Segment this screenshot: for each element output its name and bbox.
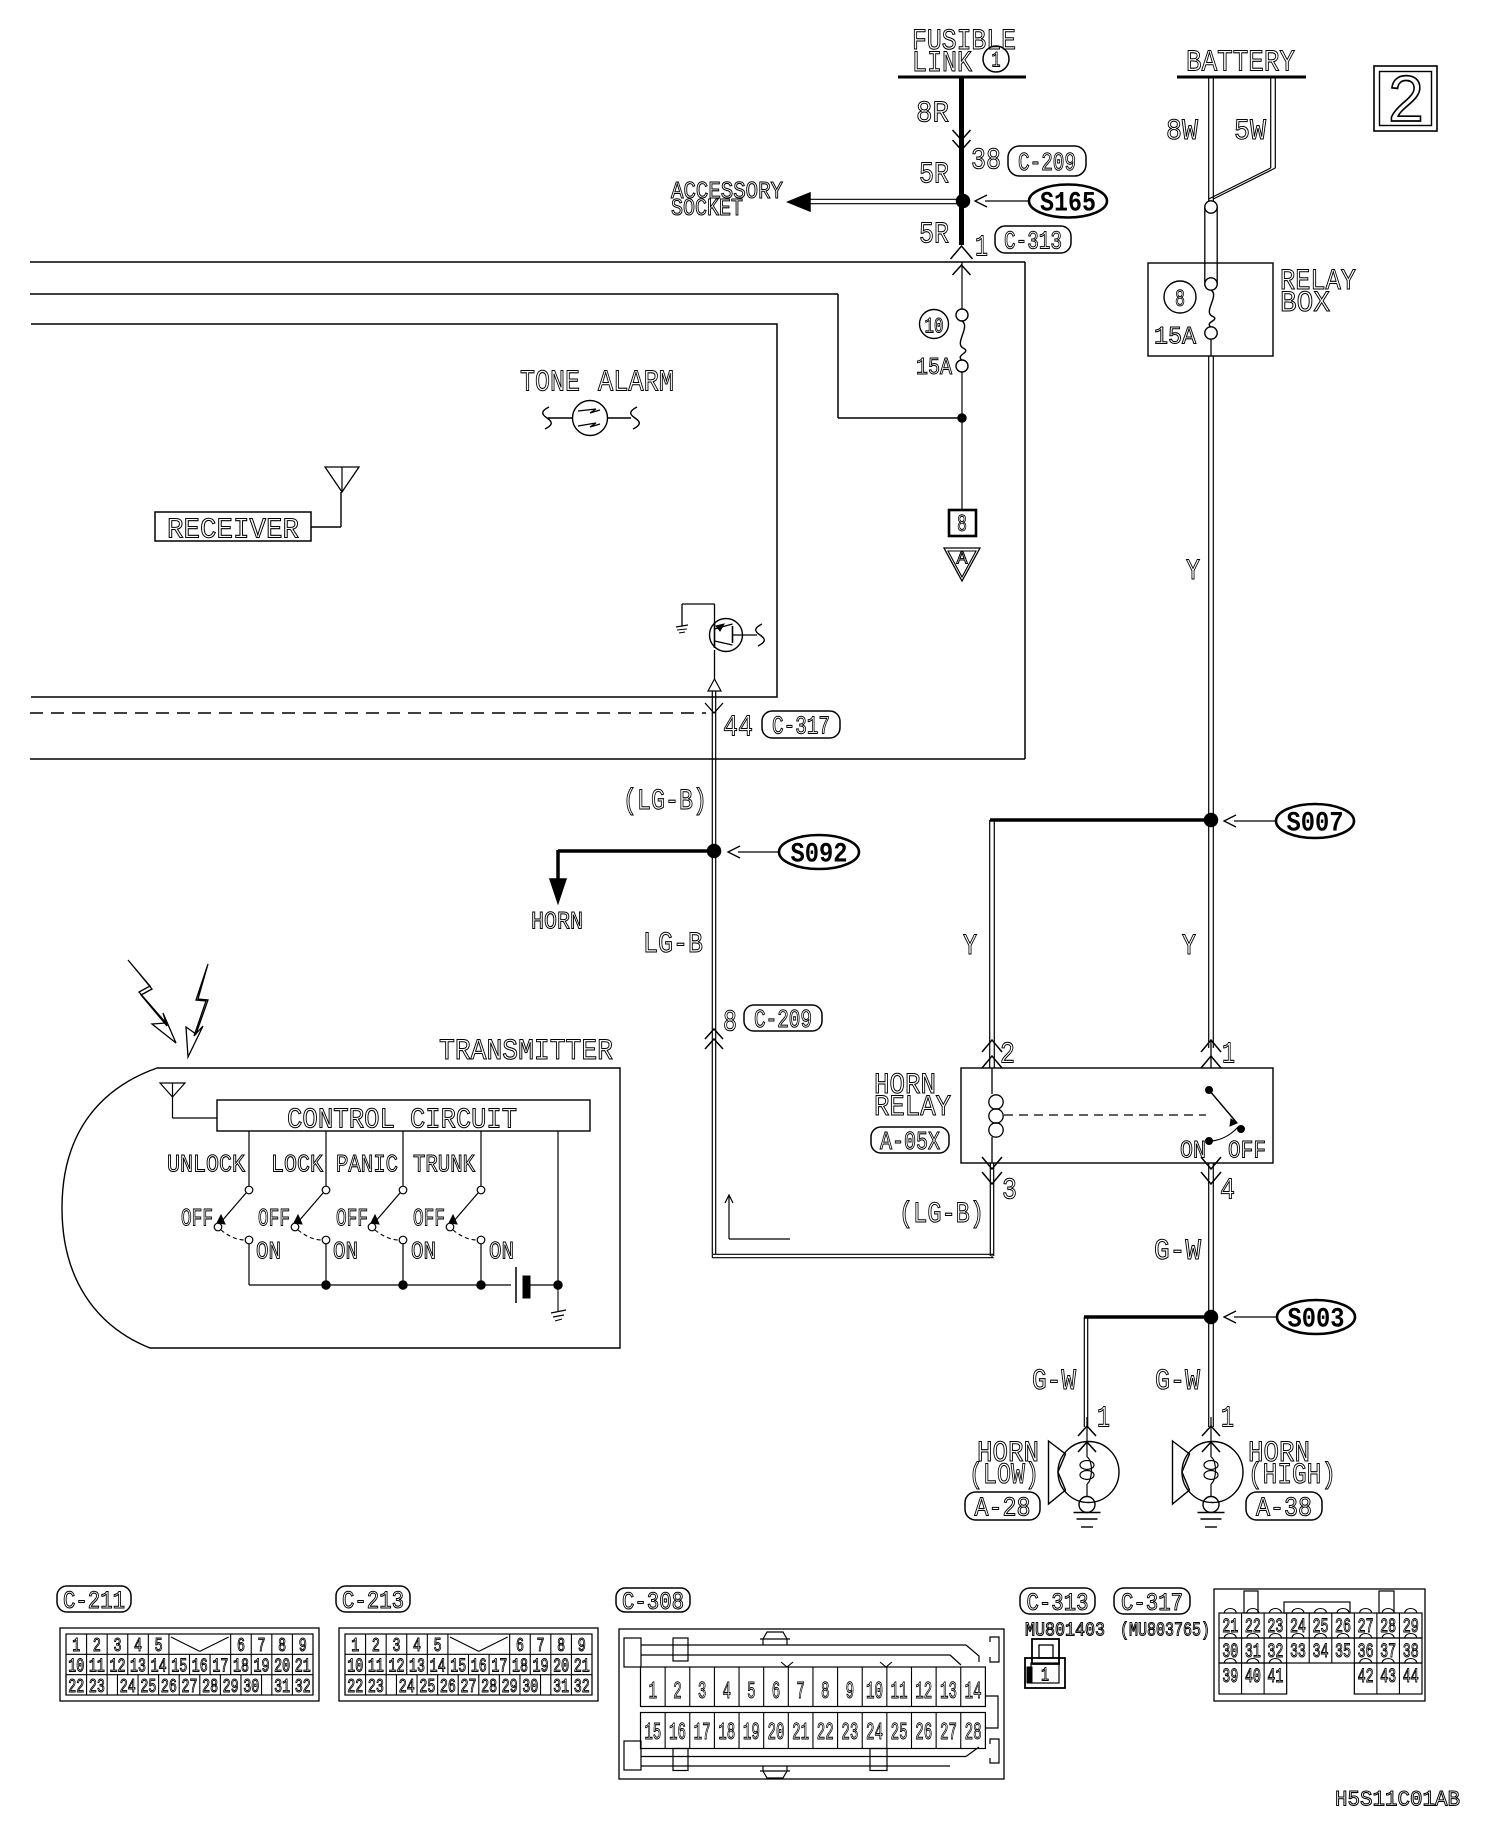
svg-text:3: 3	[392, 1635, 400, 1657]
splice label S003	[1277, 1300, 1355, 1334]
svg-text:11: 11	[368, 1655, 384, 1677]
svg-text:PANIC: PANIC	[336, 1151, 398, 1180]
transmitter antenna	[160, 1083, 185, 1097]
wire into relay pin 2	[989, 1048, 991, 1068]
svg-text:TONE: TONE	[520, 366, 580, 401]
svg-text:42: 42	[1358, 1666, 1374, 1689]
internal wire from ECU top to fuse 10	[30, 293, 838, 295]
svg-text:H5S11C01AB: H5S11C01AB	[1335, 1787, 1460, 1812]
arrow from S007 to junction	[1234, 820, 1276, 822]
arrowhead to HORN	[550, 879, 566, 903]
svg-text:31: 31	[274, 1676, 290, 1698]
svg-text:23: 23	[368, 1676, 384, 1698]
svg-text:MU801403: MU801403	[1025, 1619, 1105, 1641]
pass-through arrows on LG-B wire	[705, 1029, 723, 1039]
CONTROL CIRCUIT box	[217, 1100, 590, 1131]
svg-text:ALARM: ALARM	[598, 366, 674, 401]
svg-text:8: 8	[557, 1635, 565, 1657]
transmitter ground	[557, 1285, 559, 1311]
svg-text:20: 20	[553, 1655, 569, 1677]
svg-text:4: 4	[413, 1635, 421, 1657]
branch wire to horn low (thick)	[1084, 1315, 1209, 1319]
pin 3 exit arrows	[982, 1172, 1002, 1184]
svg-text:2: 2	[673, 1679, 682, 1706]
svg-text:15: 15	[644, 1720, 661, 1747]
arrow from S092 to junction	[738, 851, 779, 853]
connector label C-209	[1008, 146, 1086, 176]
svg-text:8: 8	[1175, 287, 1185, 314]
svg-text:ON: ON	[1180, 1137, 1206, 1166]
svg-text:9: 9	[299, 1635, 307, 1657]
svg-text:33: 33	[1290, 1641, 1306, 1664]
svg-text:2: 2	[372, 1635, 380, 1657]
svg-text:(HIGH): (HIGH)	[1248, 1459, 1336, 1493]
junction dot below fuse 10	[958, 414, 966, 422]
connector label A-38	[1246, 1492, 1322, 1520]
svg-text:17: 17	[491, 1655, 507, 1677]
wire from C-313 pin to fuse 10	[961, 262, 963, 309]
junction dots on bus	[322, 1281, 330, 1289]
junction S003 dot	[1205, 1311, 1218, 1324]
svg-text:19: 19	[254, 1655, 270, 1677]
svg-text:7: 7	[796, 1679, 805, 1706]
fusible link bus bar	[898, 76, 1026, 79]
svg-text:22: 22	[68, 1676, 84, 1698]
svg-text:15A: 15A	[916, 355, 952, 382]
svg-text:8: 8	[957, 512, 967, 539]
switch common bus	[249, 1284, 511, 1286]
svg-text:18: 18	[512, 1655, 528, 1677]
ground symbol at transistor	[681, 604, 683, 626]
svg-text:13: 13	[130, 1655, 146, 1677]
svg-text:40: 40	[1245, 1666, 1261, 1689]
triangle connector A	[944, 548, 980, 581]
svg-text:26: 26	[440, 1676, 456, 1698]
connector C-308 housing	[619, 1629, 1004, 1779]
svg-text:(LG-B): (LG-B)	[623, 785, 707, 819]
svg-text:CONTROL: CONTROL	[287, 1103, 395, 1136]
svg-text:10: 10	[68, 1655, 84, 1677]
svg-text:10: 10	[866, 1679, 883, 1706]
svg-text:24: 24	[866, 1720, 883, 1747]
inner receiver unit box	[31, 324, 777, 697]
svg-text:43: 43	[1380, 1666, 1396, 1689]
svg-text:12: 12	[388, 1655, 404, 1677]
svg-text:11: 11	[891, 1679, 908, 1706]
svg-text:1: 1	[1221, 1402, 1234, 1437]
svg-text:28: 28	[481, 1676, 497, 1698]
svg-text:18: 18	[718, 1720, 735, 1747]
svg-text:1: 1	[975, 231, 988, 266]
direction arrow near bottom run	[728, 1196, 730, 1239]
svg-text:5R: 5R	[919, 158, 949, 193]
svg-text:28: 28	[965, 1720, 982, 1747]
C-308 bottom right bracket	[990, 1739, 999, 1763]
C-308 rail notches	[781, 1662, 793, 1667]
svg-text:4: 4	[134, 1635, 142, 1657]
svg-text:1: 1	[1097, 1402, 1110, 1437]
svg-text:13: 13	[409, 1655, 425, 1677]
ECU box right edge	[1024, 262, 1026, 759]
svg-text:Y: Y	[963, 930, 977, 964]
svg-text:A-28: A-28	[975, 1494, 1031, 1524]
svg-text:3: 3	[113, 1635, 121, 1657]
connector label C-308	[616, 1588, 690, 1612]
svg-text:12: 12	[109, 1655, 125, 1677]
svg-text:30: 30	[243, 1676, 259, 1698]
svg-text:25: 25	[891, 1720, 908, 1747]
C-308 right latch	[985, 1696, 998, 1728]
svg-text:1: 1	[1041, 1664, 1049, 1686]
relay internal dashed link	[1004, 1114, 1206, 1116]
svg-text:UNLOCK: UNLOCK	[167, 1151, 245, 1180]
ECU box top line	[30, 261, 1025, 263]
svg-text:C-317: C-317	[772, 712, 830, 742]
wire 8R from fusible link (thick)	[959, 77, 964, 245]
C-308 top rails	[641, 1644, 966, 1646]
svg-text:S003: S003	[1288, 1305, 1345, 1336]
svg-text:OFF: OFF	[258, 1205, 290, 1234]
receiver antenna symbol	[311, 526, 341, 528]
page number box 2	[1374, 66, 1437, 131]
C-317 top tabs	[1244, 1591, 1258, 1613]
svg-text:6: 6	[772, 1679, 781, 1706]
svg-text:5: 5	[155, 1635, 163, 1657]
pin 1 entry arrows	[1201, 1040, 1221, 1052]
svg-text:A-05X: A-05X	[880, 1127, 940, 1157]
svg-text:A: A	[957, 550, 968, 570]
svg-text:C-209: C-209	[1018, 148, 1076, 178]
pin 4 exit arrows	[1201, 1172, 1221, 1184]
horn (high) symbol	[1182, 1442, 1243, 1503]
arrowhead to accessory socket	[788, 193, 810, 211]
circled 10 (fuse number)	[920, 310, 949, 339]
svg-text:1: 1	[649, 1679, 658, 1706]
svg-text:41: 41	[1267, 1666, 1283, 1689]
svg-text:30: 30	[522, 1676, 538, 1698]
page-connection arrowhead at pin 44	[705, 703, 723, 713]
switch at x=481	[480, 1131, 482, 1186]
relay box outline	[1148, 263, 1273, 356]
svg-text:25: 25	[140, 1676, 156, 1698]
svg-text:8: 8	[278, 1635, 286, 1657]
svg-text:23: 23	[841, 1720, 858, 1747]
ECU box bottom line	[30, 758, 1025, 760]
fuse 10 (15A) symbol	[956, 309, 968, 321]
svg-text:39: 39	[1222, 1666, 1238, 1689]
svg-text:27: 27	[182, 1676, 198, 1698]
radio waves (lightning arrows)	[128, 960, 176, 1043]
junction S092 dot	[708, 845, 721, 858]
svg-text:38: 38	[971, 144, 1001, 179]
svg-text:8: 8	[723, 1006, 737, 1041]
wire from pin 3 down (double line)	[989, 1163, 991, 1256]
dashed expansion line of ECU	[30, 712, 706, 714]
circled 8 (fuse number)	[1164, 281, 1196, 313]
svg-text:17: 17	[212, 1655, 228, 1677]
svg-text:BOX: BOX	[1280, 287, 1330, 321]
junction S165 dot	[957, 195, 970, 208]
svg-text:5: 5	[434, 1635, 442, 1657]
svg-text:S165: S165	[1040, 189, 1096, 220]
svg-text:C-313: C-313	[1027, 1589, 1089, 1618]
svg-text:23: 23	[89, 1676, 105, 1698]
svg-text:4: 4	[1220, 1174, 1235, 1209]
svg-text:7: 7	[258, 1635, 266, 1657]
svg-text:29: 29	[223, 1676, 239, 1698]
svg-text:31: 31	[553, 1676, 569, 1698]
svg-text:3: 3	[698, 1679, 707, 1706]
svg-text:19: 19	[533, 1655, 549, 1677]
svg-text:17: 17	[694, 1720, 711, 1747]
switch at x=403	[402, 1131, 404, 1186]
arrow from S165 to junction	[985, 200, 1029, 202]
connector label A-28	[965, 1492, 1040, 1520]
svg-text:26: 26	[161, 1676, 177, 1698]
svg-text:Y: Y	[1182, 930, 1196, 964]
svg-text:35: 35	[1335, 1641, 1351, 1664]
svg-text:27: 27	[461, 1676, 477, 1698]
svg-text:24: 24	[120, 1676, 136, 1698]
relay coil	[991, 1068, 993, 1094]
fusible link element (pill) in battery feed	[1205, 201, 1217, 213]
C-308 pin grid	[641, 1667, 986, 1707]
svg-text:G-W: G-W	[1154, 1235, 1201, 1269]
transistor Q1 in receiver	[710, 619, 743, 652]
svg-text:5: 5	[747, 1679, 756, 1706]
svg-text:8W: 8W	[1166, 115, 1198, 149]
svg-text:1: 1	[351, 1635, 359, 1657]
svg-text:16: 16	[192, 1655, 208, 1677]
svg-text:15A: 15A	[1154, 323, 1196, 352]
svg-text:12: 12	[915, 1679, 932, 1706]
svg-text:C-317: C-317	[1121, 1589, 1183, 1618]
connector label C-213	[336, 1586, 410, 1612]
wire Y from S007 to relay pin 1 (double line)	[1208, 824, 1210, 1048]
svg-text:28: 28	[202, 1676, 218, 1698]
svg-text:14: 14	[430, 1655, 446, 1677]
splice label S092	[779, 835, 859, 869]
svg-text:22: 22	[347, 1676, 363, 1698]
svg-text:25: 25	[419, 1676, 435, 1698]
svg-text:9: 9	[578, 1635, 586, 1657]
svg-text:BATTERY: BATTERY	[1186, 46, 1295, 81]
wire from transistor to pin 44	[714, 650, 716, 679]
svg-text:C-211: C-211	[63, 1587, 125, 1616]
svg-text:G-W: G-W	[1032, 1365, 1076, 1399]
tone alarm speaker symbol	[573, 401, 608, 436]
svg-text:(LOW): (LOW)	[969, 1459, 1039, 1493]
pass-through arrow at ECU boundary	[951, 246, 973, 259]
connector label C-313	[995, 226, 1071, 253]
svg-text:CIRCUIT: CIRCUIT	[410, 1103, 517, 1136]
svg-text:13: 13	[940, 1679, 957, 1706]
arrow from S003 to junction	[1234, 1316, 1277, 1318]
svg-text:3: 3	[1002, 1174, 1017, 1209]
connector label C-209 (lower)	[744, 1005, 822, 1031]
svg-text:34: 34	[1313, 1641, 1329, 1664]
svg-text:Y: Y	[1186, 555, 1200, 589]
svg-text:11: 11	[89, 1655, 105, 1677]
wire 8W (double line)	[1208, 77, 1210, 201]
C-308 bottom ears and clip	[624, 1741, 641, 1770]
svg-text:RECEIVER: RECEIVER	[167, 513, 299, 546]
connector C-213 pinout table	[339, 1628, 598, 1701]
svg-text:ON: ON	[489, 1238, 514, 1267]
svg-text:24: 24	[399, 1676, 415, 1698]
svg-text:TRANSMITTER: TRANSMITTER	[439, 1035, 613, 1069]
svg-text:32: 32	[295, 1676, 311, 1698]
svg-text:6: 6	[237, 1635, 245, 1657]
svg-text:S007: S007	[1287, 809, 1344, 840]
switch at x=326	[325, 1131, 327, 1186]
C-308 top right bracket	[990, 1637, 999, 1662]
connector pass-through arrows on wire	[953, 130, 971, 140]
C-317 pin grid	[1219, 1613, 1422, 1638]
svg-text:20: 20	[767, 1720, 784, 1747]
branch wire from S007 to relay coil (thick then double)	[990, 818, 1209, 822]
connector label C-211	[57, 1586, 131, 1612]
svg-text:C-213: C-213	[342, 1587, 404, 1616]
switch at x=249	[248, 1131, 250, 1186]
svg-text:OFF: OFF	[336, 1205, 368, 1234]
svg-text:26: 26	[915, 1720, 932, 1747]
wire G-W to horn high (double line)	[1208, 1317, 1210, 1427]
bottom LG-B run to horn relay pin 3 (double line)	[712, 1253, 993, 1255]
battery cell symbol in transmitter	[515, 1267, 517, 1303]
wire from pin 4 down (double line)	[1208, 1163, 1210, 1314]
transmitter body outline	[62, 1068, 620, 1348]
svg-text:32: 32	[574, 1676, 590, 1698]
svg-text:10: 10	[347, 1655, 363, 1677]
wire from control circuit to bus (right)	[557, 1131, 559, 1285]
svg-text:7: 7	[537, 1635, 545, 1657]
connector label C-317 (bottom)	[1114, 1588, 1190, 1614]
branch wire to horn (thick)	[558, 849, 708, 853]
pin 2 entry arrows	[982, 1040, 1002, 1052]
svg-text:OFF: OFF	[413, 1205, 445, 1234]
svg-text:HORN: HORN	[531, 908, 583, 937]
connector label C-317	[762, 711, 840, 738]
svg-text:21: 21	[792, 1720, 809, 1747]
svg-text:20: 20	[274, 1655, 290, 1677]
svg-text:27: 27	[940, 1720, 957, 1747]
svg-text:21: 21	[295, 1655, 311, 1677]
svg-text:22: 22	[817, 1720, 834, 1747]
wire LG-B from pin 44 (double line)	[711, 691, 713, 1254]
svg-text:TRUNK: TRUNK	[413, 1151, 475, 1180]
wire from junction to connector box 8	[961, 418, 963, 510]
svg-text:10: 10	[925, 314, 944, 339]
connector C-317 pinout table	[1214, 1589, 1425, 1701]
svg-text:18: 18	[233, 1655, 249, 1677]
svg-text:(MU803765): (MU803765)	[1120, 1619, 1210, 1641]
svg-text:LG-B: LG-B	[643, 928, 703, 962]
svg-text:ON: ON	[256, 1238, 281, 1267]
wire from relay pin 1 (top)	[1210, 1040, 1212, 1068]
splice label S007	[1276, 804, 1354, 838]
svg-text:SOCKET: SOCKET	[671, 196, 743, 223]
wire Y battery to S007 (double line)	[1208, 356, 1210, 817]
svg-text:(LG-B): (LG-B)	[899, 1198, 984, 1232]
in-line connector box 8	[949, 510, 976, 536]
connector label C-313 (bottom)	[1020, 1588, 1095, 1614]
svg-text:9: 9	[846, 1679, 855, 1706]
svg-text:1: 1	[992, 48, 1001, 73]
svg-text:15: 15	[450, 1655, 466, 1677]
C-308 top left ears	[624, 1638, 641, 1667]
svg-text:29: 29	[502, 1676, 518, 1698]
relay switch contacts	[1206, 1087, 1213, 1094]
connector label A-05X	[871, 1127, 949, 1153]
horn (low) symbol	[1058, 1442, 1119, 1503]
svg-text:C-209: C-209	[754, 1005, 812, 1035]
horn relay box	[961, 1068, 1273, 1163]
svg-text:4: 4	[722, 1679, 731, 1706]
svg-text:OFF: OFF	[181, 1205, 213, 1234]
C-308 bottom rails	[641, 1756, 966, 1758]
svg-text:LOCK: LOCK	[271, 1151, 323, 1180]
svg-text:14: 14	[965, 1679, 982, 1706]
svg-text:16: 16	[669, 1720, 686, 1747]
svg-text:14: 14	[151, 1655, 167, 1677]
svg-text:21: 21	[574, 1655, 590, 1677]
connector C-211 pinout table	[60, 1628, 319, 1701]
svg-text:8R: 8R	[916, 97, 949, 132]
svg-text:S092: S092	[791, 840, 848, 871]
svg-text:16: 16	[471, 1655, 487, 1677]
svg-text:ON: ON	[411, 1238, 436, 1267]
svg-text:C-308: C-308	[622, 1588, 684, 1617]
svg-text:19: 19	[743, 1720, 760, 1747]
circled 1 (fusible link number)	[983, 46, 1009, 72]
svg-text:2: 2	[1387, 65, 1425, 142]
triangle connector (receiver output)	[708, 679, 721, 691]
svg-text:8: 8	[821, 1679, 830, 1706]
junction S007 dot	[1205, 814, 1218, 827]
svg-text:44: 44	[1403, 1666, 1419, 1689]
svg-text:5W: 5W	[1234, 115, 1266, 149]
svg-text:6: 6	[516, 1635, 524, 1657]
battery bus bar	[1177, 76, 1306, 79]
svg-text:2: 2	[93, 1635, 101, 1657]
svg-text:RELAY: RELAY	[874, 1091, 951, 1125]
svg-text:44: 44	[723, 711, 753, 746]
wire to accessory socket (double line)	[810, 198, 957, 200]
svg-text:ON: ON	[333, 1238, 358, 1267]
connector C-313 icon	[1032, 1639, 1059, 1664]
wire 5W (double line with slant)	[1270, 77, 1272, 168]
svg-text:OFF: OFF	[1228, 1137, 1266, 1166]
svg-text:G-W: G-W	[1155, 1365, 1200, 1399]
svg-text:5R: 5R	[919, 218, 949, 253]
svg-text:A-38: A-38	[1256, 1494, 1312, 1524]
C-308 top hat clip	[763, 1632, 787, 1645]
svg-text:15: 15	[171, 1655, 187, 1677]
wire G-W to horn low (double line)	[1083, 1317, 1085, 1427]
RECEIVER box	[155, 512, 311, 541]
splice label S165	[1029, 185, 1107, 218]
svg-text:C-313: C-313	[1004, 227, 1062, 257]
svg-text:1: 1	[72, 1635, 80, 1657]
fuse 15A in relay box	[1209, 290, 1215, 327]
